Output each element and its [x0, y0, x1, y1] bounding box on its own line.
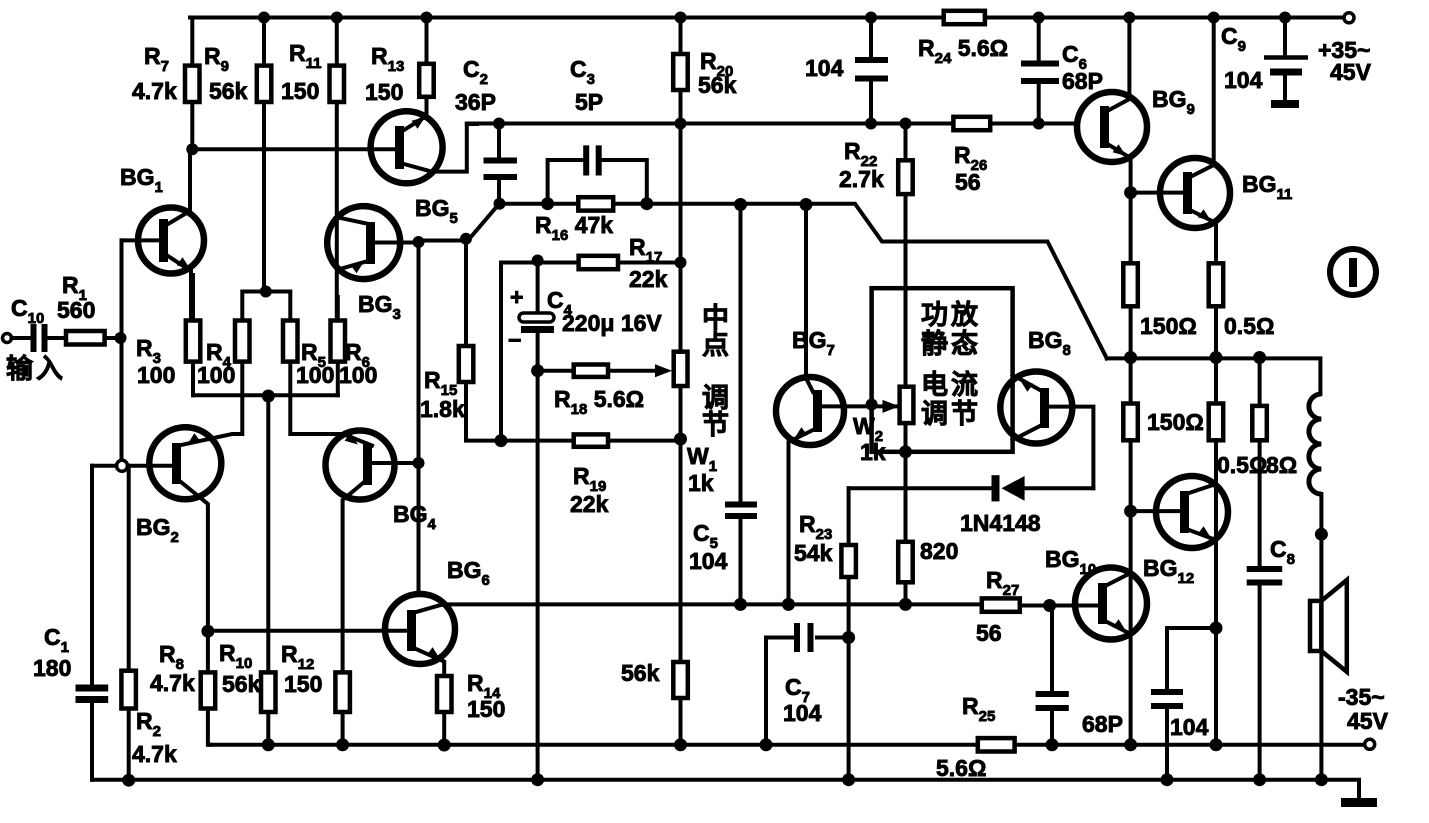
svg-text:4.7k: 4.7k [132, 741, 177, 767]
resistor 820 [898, 542, 913, 583]
resistor R1 [66, 331, 105, 345]
node BG12 emitter branch [1210, 622, 1223, 635]
transistor BG6 [385, 594, 455, 664]
resistor R13 [425, 18, 429, 64]
resistor R8 [201, 672, 216, 708]
node wiper line on box edge [866, 399, 878, 411]
svg-text:点: 点 [702, 330, 732, 360]
svg-text:100: 100 [137, 362, 175, 388]
node R23 column on ground rail [842, 773, 855, 786]
svg-text:560: 560 [57, 297, 95, 323]
transistor BG1 [138, 208, 204, 274]
capacitor C10 [12, 336, 31, 340]
svg-text:68P: 68P [1062, 68, 1103, 94]
diode 1N4148 [849, 486, 994, 490]
node R9 tail tap [260, 286, 272, 298]
wire R17 left loop down to R19 [499, 263, 503, 441]
node top rail R9 [258, 12, 270, 24]
wire +35V top rail left segment [190, 16, 944, 20]
node BG4 base tee [413, 457, 425, 469]
speaker [1310, 601, 1321, 651]
resistor 0.5ohm upper [1209, 263, 1224, 306]
wire BG3/BG4 base column down to BG6 collector [417, 242, 421, 594]
svg-text:220μ 16V: 220μ 16V [562, 310, 662, 336]
node R12 bottom [336, 738, 349, 751]
capacitor C1 [90, 466, 94, 688]
node 8ohm top on output rail [1253, 351, 1266, 364]
node top rail R13 [421, 12, 433, 24]
node top rail bypass cap [865, 12, 877, 24]
svg-text:1.8k: 1.8k [420, 396, 465, 422]
node C4 column ground [531, 773, 544, 786]
svg-text:150: 150 [284, 671, 322, 697]
node C4 top [532, 255, 544, 267]
node R22 top on emitter rail [900, 118, 912, 130]
svg-text:静态: 静态 [921, 329, 981, 359]
capacitor C2 [497, 124, 501, 158]
wire -35V rail [209, 743, 978, 747]
wire R27 to BG10 base [1020, 604, 1098, 608]
resistor R25 [978, 738, 1015, 751]
resistor R9 [262, 18, 266, 66]
node C6 top on rail [1033, 12, 1045, 24]
terminal +35V [1344, 13, 1354, 23]
svg-text:1N4148: 1N4148 [960, 510, 1041, 536]
svg-text:36P: 36P [455, 89, 496, 115]
resistor R6 [336, 297, 340, 321]
resistor R19 [574, 434, 608, 446]
node 820 bottom on rail [899, 598, 912, 611]
node R14 bottom [438, 739, 451, 752]
node R27 right / 68P top [1043, 599, 1056, 612]
node R16 right [640, 197, 653, 210]
node C9 top on rail [1279, 12, 1291, 24]
svg-text:节: 节 [702, 410, 732, 440]
svg-text:150Ω: 150Ω [1147, 409, 1204, 435]
node 56k bottom [674, 738, 687, 751]
svg-text:2.7k: 2.7k [839, 166, 884, 192]
capacitor 68P [1050, 606, 1054, 695]
svg-text:104: 104 [689, 548, 728, 574]
svg-text:8Ω: 8Ω [1266, 452, 1297, 478]
resistor R24 [944, 11, 985, 24]
node BG9 collector on rail [1123, 12, 1135, 24]
transistor BG10 [1075, 568, 1147, 640]
wire feedback line to output (with jogs) [647, 204, 1107, 359]
resistor R11 [335, 18, 339, 66]
node R7 bottom / BG1 collector / BG5 base [186, 143, 198, 155]
svg-text:功放: 功放 [921, 299, 981, 330]
input terminal [3, 334, 12, 343]
node emitter line tap to R10 [262, 390, 275, 403]
node BG2 collector / BG6 base [201, 625, 214, 638]
wire BG3 base line to C2 node [419, 204, 500, 241]
node BG9 emitter / BG11 base [1124, 186, 1137, 199]
node BG11 collector on rail [1208, 12, 1220, 24]
svg-text:中: 中 [702, 303, 732, 333]
node C2 bottom / feedback [494, 198, 506, 210]
transistor BG5 [371, 111, 443, 183]
resistor R7 [190, 18, 194, 66]
resistor R4 [235, 321, 250, 362]
resistor R12 [335, 672, 350, 712]
node 68P bottom [1046, 738, 1059, 751]
node R17 right on W1 column [675, 257, 687, 269]
svg-text:56: 56 [976, 620, 1002, 646]
node C5 top [734, 198, 747, 211]
transistor BG3 [327, 206, 400, 279]
resistor R14 [437, 676, 452, 712]
wire BG1 base column to BG2 base [120, 240, 124, 460]
wire feedback line to R16 [500, 202, 548, 206]
transistor BG2 [149, 427, 221, 499]
transistor BG8 [1000, 372, 1072, 444]
node 150ohm on output rail [1124, 351, 1137, 364]
node W2 bottom on box edge [899, 445, 912, 458]
svg-text:+: + [510, 284, 523, 310]
svg-text:56k: 56k [621, 660, 660, 686]
svg-text:104: 104 [783, 700, 822, 726]
wiper arrow W1 [655, 364, 672, 377]
wire W1 column down through rail to 56k [679, 386, 683, 662]
node R19 right on W1 column [674, 433, 687, 446]
svg-text:56k: 56k [222, 671, 261, 697]
svg-text:180: 180 [33, 655, 71, 681]
wire output rail [1107, 358, 1321, 394]
resistor 150ohm lower [1129, 358, 1133, 404]
svg-text:5P: 5P [575, 89, 603, 115]
resistor R26 [953, 117, 990, 130]
resistor R16 [578, 197, 613, 210]
capacitor C5 [739, 205, 743, 505]
node BG12 base tee [1124, 505, 1137, 518]
svg-text:100: 100 [197, 362, 235, 388]
svg-text:5.6Ω: 5.6Ω [936, 755, 986, 781]
wire BG7 emitter rail (y=604.4) [443, 602, 982, 606]
svg-text:调节: 调节 [921, 399, 981, 429]
wire R4/R5 top U to R9 [242, 292, 290, 321]
node input / BG1 base [115, 332, 127, 344]
svg-text:820: 820 [920, 538, 958, 564]
transistor BG9 [1077, 92, 1147, 162]
node C6 bottom [1033, 118, 1045, 130]
capacitor C7 [817, 636, 849, 640]
svg-text:150Ω: 150Ω [1140, 313, 1197, 339]
annotation box bias network [872, 288, 1013, 452]
node R23 / C7 [842, 631, 855, 644]
wire +35V top rail right segment [985, 16, 1344, 20]
node inductor/speaker [1315, 528, 1328, 541]
node BG7 collector tap [800, 198, 813, 211]
svg-text:150: 150 [365, 79, 403, 105]
capacitor 104 lower [1167, 628, 1216, 692]
node C7 left on -35 rail [760, 738, 773, 751]
resistor R3 [191, 275, 195, 321]
wire BG5 emitter rail (y=123.5) [467, 122, 1075, 126]
resistor R15 [464, 239, 468, 346]
node 0.5ohm on output rail [1210, 351, 1223, 364]
wire R19 row [501, 439, 681, 443]
wire driver column down [1129, 193, 1133, 264]
svg-text:150: 150 [281, 78, 319, 104]
svg-text:22k: 22k [570, 491, 609, 517]
node driver column -35 rail [1124, 738, 1137, 751]
node R16 left [541, 197, 554, 210]
node top rail R20 [675, 12, 687, 24]
transistor BG7 [776, 377, 844, 445]
resistor R2 [127, 466, 131, 671]
svg-text:100: 100 [296, 362, 334, 388]
capacitor 104 top bypass [869, 18, 873, 61]
svg-text:56: 56 [955, 169, 981, 195]
resistor 56k bottom [673, 662, 688, 698]
wire BG6 base line [208, 629, 407, 633]
potentiometer W1 [674, 352, 688, 386]
resistor R23 [847, 488, 851, 545]
node BG12 column -35 rail [1210, 738, 1223, 751]
svg-text:22k: 22k [629, 266, 668, 292]
capacitor C3 loop [548, 160, 583, 204]
svg-text:54k: 54k [794, 540, 833, 566]
wiper arrow W2 [883, 400, 900, 413]
node R20 bottom on emitter rail [675, 118, 687, 130]
node BG7 emitter on rail [782, 598, 795, 611]
transistor BG4 [326, 431, 395, 500]
svg-text:调: 调 [702, 383, 732, 413]
node C5 bottom [734, 598, 747, 611]
svg-text:56k: 56k [209, 78, 248, 104]
wire BG2 base row [92, 464, 172, 468]
wire R17 row [501, 261, 681, 265]
svg-text:电流: 电流 [921, 370, 981, 400]
svg-text:1k: 1k [860, 439, 886, 465]
svg-text:68P: 68P [1082, 711, 1123, 737]
transistor BG12 [1156, 476, 1228, 548]
node 104 ground [1161, 773, 1174, 786]
capacitor C4 electrolytic [536, 261, 540, 315]
capacitor C6 [1037, 18, 1041, 64]
wire inductor to speaker [1319, 494, 1323, 780]
svg-text:-35~: -35~ [1338, 684, 1385, 710]
capacitor C8 [1247, 569, 1283, 583]
node C8 ground [1253, 773, 1266, 786]
node 104 bottom on emitter rail [865, 118, 877, 130]
resistor 8ohm [1258, 358, 1262, 406]
node C4 / R18 tee [531, 364, 544, 377]
terminal -35V [1365, 739, 1375, 749]
wire R11 to BG3 and R6 column [335, 102, 339, 321]
resistor R17 [579, 256, 618, 269]
svg-text:104: 104 [805, 55, 844, 81]
inductor L [1309, 394, 1322, 494]
node speaker ground [1315, 773, 1328, 786]
svg-text:104: 104 [1170, 714, 1209, 740]
svg-text:0.5Ω: 0.5Ω [1217, 452, 1267, 478]
wire -35V rail right part [1015, 743, 1365, 747]
svg-text:104: 104 [1224, 67, 1263, 93]
svg-text:−: − [508, 327, 521, 353]
svg-text:45V: 45V [1330, 59, 1372, 85]
resistor R20 [679, 18, 683, 55]
resistor 0.5ohm lower [1214, 358, 1218, 404]
svg-text:0.5Ω: 0.5Ω [1224, 313, 1274, 339]
svg-text:150: 150 [467, 696, 505, 722]
capacitor C9 [1283, 18, 1287, 57]
resistor R27 [982, 598, 1020, 611]
wire R3-R6 bottoms emitter line [193, 393, 338, 397]
wire W2 bottom to 820 [904, 423, 908, 542]
node BG2 base joint [117, 460, 128, 471]
potentiometer W2 [900, 387, 914, 423]
transistor BG11 [1160, 158, 1230, 228]
wire BG5 base line [192, 147, 395, 151]
resistor R22 [904, 124, 908, 161]
wire ground rail (bottom) [92, 780, 1359, 799]
phase marker circle I [1330, 249, 1376, 295]
svg-text:4.7k: 4.7k [150, 670, 195, 696]
resistor R18 [538, 369, 574, 373]
node R19 left [495, 434, 508, 447]
svg-text:56k: 56k [698, 72, 737, 98]
node BG3 base / BG4 base column [413, 236, 425, 248]
node feedback R15 tap [460, 233, 472, 245]
svg-text:4.7k: 4.7k [132, 78, 177, 104]
node R10 bottom [262, 738, 275, 751]
resistor R10 [261, 672, 276, 712]
resistor 150ohm upper [1123, 263, 1138, 306]
svg-text:输入: 输入 [6, 353, 66, 384]
svg-text:45V: 45V [1347, 708, 1389, 734]
svg-text:100: 100 [339, 362, 377, 388]
node top rail R11 [331, 12, 343, 24]
resistor R5 [283, 321, 298, 362]
svg-text:1k: 1k [688, 470, 714, 496]
wire tap column down to R10 [266, 396, 270, 672]
node R2 ground [122, 774, 135, 787]
ground symbol [1341, 798, 1377, 807]
node C2 top on emitter rail [493, 118, 505, 130]
